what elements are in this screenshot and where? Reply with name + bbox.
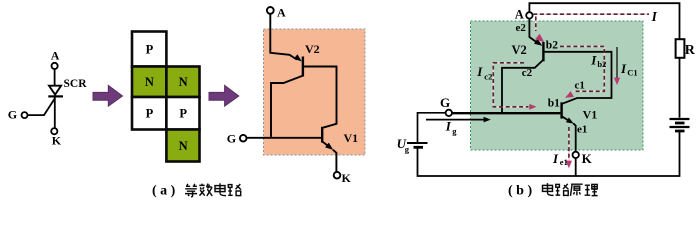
svg-text:R: R: [685, 43, 696, 58]
svg-text:A: A: [277, 6, 286, 20]
svg-text:G: G: [8, 108, 17, 122]
svg-text:K: K: [582, 151, 593, 166]
svg-text:V1: V1: [583, 108, 598, 122]
svg-text:C1: C1: [627, 67, 637, 77]
svg-text:I: I: [590, 53, 597, 68]
svg-text:I: I: [552, 151, 559, 166]
svg-text:V2: V2: [305, 42, 320, 56]
svg-text:b1: b1: [548, 98, 560, 110]
svg-text:b2: b2: [546, 40, 558, 52]
svg-text:c2: c2: [484, 71, 492, 81]
svg-text:g: g: [405, 144, 410, 154]
svg-text:e1: e1: [560, 157, 568, 167]
svg-text:SCR: SCR: [64, 78, 88, 90]
svg-text:K: K: [52, 134, 62, 148]
svg-text:I: I: [651, 9, 658, 24]
svg-text:I: I: [620, 61, 627, 76]
svg-text:N: N: [179, 75, 188, 89]
svg-text:P: P: [146, 43, 154, 57]
svg-text:I: I: [445, 119, 452, 134]
svg-text:c2: c2: [522, 67, 533, 79]
svg-text:(a): (a): [152, 184, 179, 199]
svg-text:G: G: [440, 95, 450, 110]
svg-text:P: P: [179, 107, 187, 121]
svg-text:V2: V2: [512, 43, 527, 57]
svg-text:N: N: [179, 139, 188, 153]
svg-text:P: P: [146, 107, 154, 121]
svg-text:A: A: [515, 7, 524, 21]
svg-text:b2: b2: [597, 59, 606, 69]
svg-text:I: I: [476, 64, 483, 79]
svg-text:N: N: [145, 75, 154, 89]
svg-text:g: g: [452, 126, 457, 136]
svg-text:A: A: [51, 49, 60, 63]
svg-text:G: G: [227, 131, 236, 145]
svg-text:(b): (b): [508, 184, 536, 199]
svg-text:e1: e1: [577, 124, 587, 136]
svg-text:K: K: [342, 171, 352, 185]
svg-text:e2: e2: [516, 22, 527, 34]
svg-text:V1: V1: [344, 131, 359, 145]
svg-text:c1: c1: [575, 79, 585, 91]
